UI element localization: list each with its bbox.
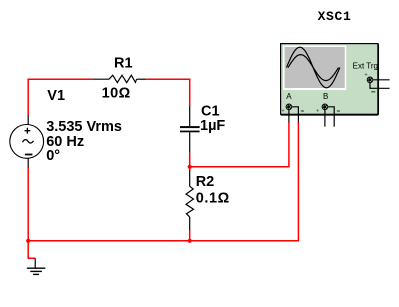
wire bottom rail [28,240,299,242]
svg-text:10Ω: 10Ω [102,85,131,101]
pin Ext Trg minus mark [371,91,375,93]
node junction bottom middle [188,239,192,243]
wire scope A plus vertical [288,122,290,168]
wire left column upper (V1 top) [27,79,29,117]
wire scope A minus vertical [297,122,299,241]
pin A plus stub [288,110,290,122]
pin B minus mark [337,110,340,112]
svg-text:0.1Ω: 0.1Ω [196,190,230,206]
terminal B [322,104,329,111]
svg-text:0°: 0° [46,148,60,164]
wire left column lower (V1 bottom to bottom rail) [27,167,29,241]
pin Ext Trg plus stub [373,79,389,81]
capacitor C1 [180,106,200,153]
pin A plus mark [282,109,285,112]
svg-text:1µF: 1µF [200,118,225,134]
svg-text:3.535 Vrms: 3.535 Vrms [46,119,122,135]
node junction C1/R2/scope [188,165,192,169]
svg-text:XSC1: XSC1 [318,9,352,24]
wire ground drop [28,241,35,258]
pin Ext Trg minus stub [370,83,390,88]
wire top rail right segment [146,78,190,80]
scope trace channel B [288,55,339,81]
terminal A [286,104,293,111]
oscilloscope body [281,44,379,115]
svg-text:R1: R1 [114,56,133,72]
pin B plus stub [324,110,326,127]
resistor R2 [186,170,194,230]
svg-text:Ext Trg: Ext Trg [353,61,378,70]
pin B plus mark [316,109,319,112]
voltage source V1 [10,116,44,168]
wire middle column C1 top [189,79,191,106]
wire top rail left segment [28,78,92,80]
wire middle column R2 bottom [189,230,191,240]
svg-text:V1: V1 [47,88,65,104]
ground [27,258,45,274]
scope trace channel A [287,47,340,88]
svg-text:A: A [286,92,292,101]
svg-text:B: B [323,92,328,101]
pin Ext Trg plus mark [365,73,368,76]
pin A minus mark [301,110,304,112]
resistor R1 [93,75,147,82]
node junction bottom left [26,239,30,243]
pin A minus stub [292,107,298,123]
wire middle column C1 bottom [189,153,191,171]
terminal Ext Trg [367,77,374,84]
wire mid horizontal node to scope A [190,166,289,168]
svg-text:R2: R2 [196,174,215,190]
pin B minus stub [328,107,334,127]
